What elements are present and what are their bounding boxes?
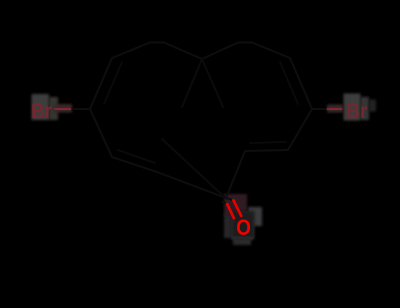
svg-text:O: O (236, 215, 251, 240)
svg-text:Br: Br (31, 100, 52, 123)
svg-text:Br: Br (346, 100, 367, 123)
